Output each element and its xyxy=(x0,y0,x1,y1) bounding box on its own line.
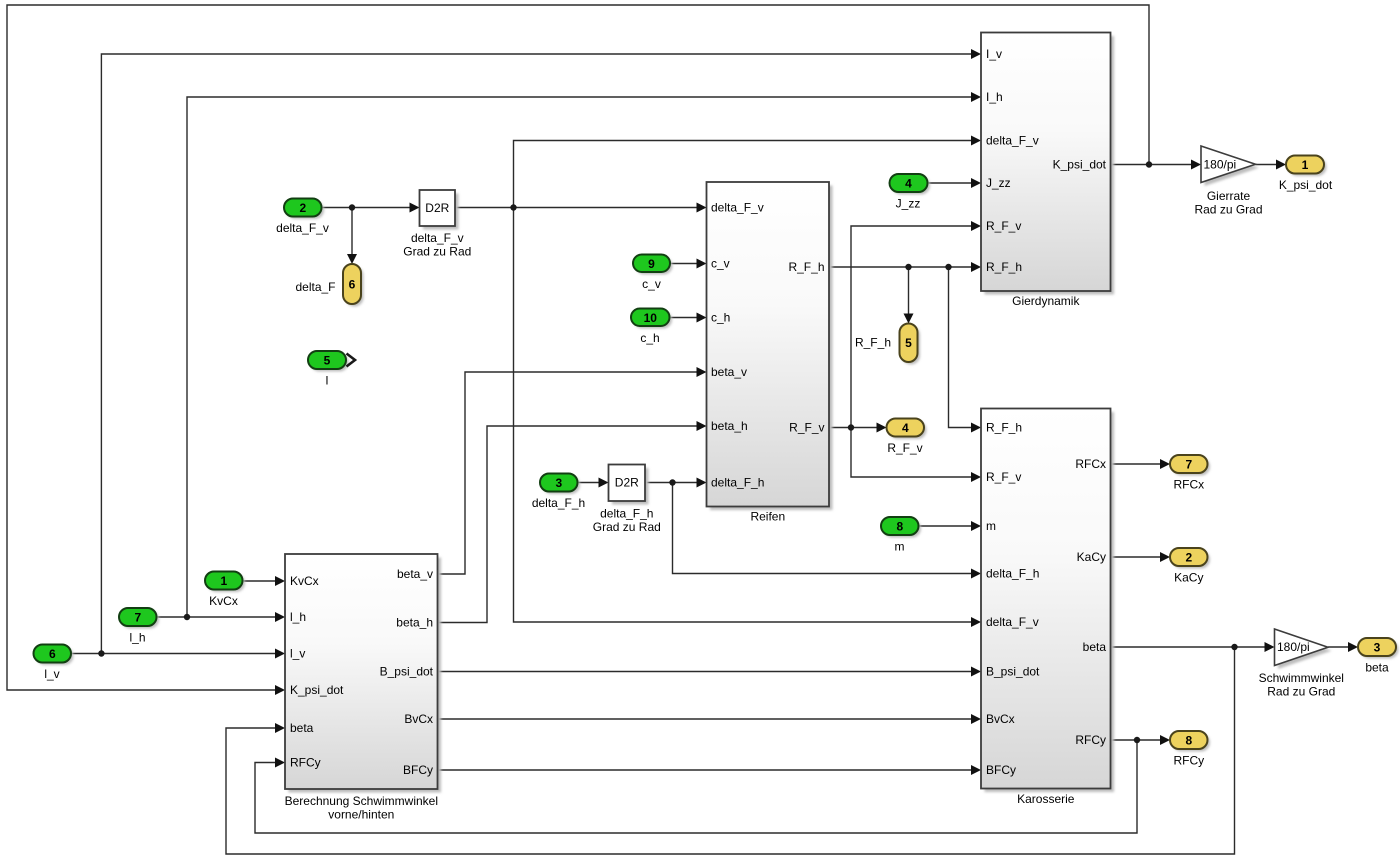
gain Schwimmwinkel Rad zu Grad 180/pi xyxy=(1259,629,1344,699)
wire D2R1 output to Reifen delta_F_v xyxy=(455,207,698,209)
junction beta xyxy=(1231,644,1237,650)
svg-text:3: 3 xyxy=(1374,641,1381,655)
wire R_F_h branch down to Karosserie xyxy=(949,267,973,428)
svg-text:7: 7 xyxy=(1185,458,1192,472)
svg-text:RFCx: RFCx xyxy=(1173,478,1204,492)
wire net beta_h xyxy=(438,426,698,623)
wire net delta_F_v from inport 2 to D2R xyxy=(322,207,412,209)
svg-text:8: 8 xyxy=(1185,734,1192,748)
wire net BFCy xyxy=(438,769,973,771)
wire delta_F_v rad branch down to Karosserie xyxy=(514,208,973,623)
arrowheads into Reifen xyxy=(697,203,707,488)
wire net l_v branch up to Gierdynamik I_v xyxy=(101,54,972,654)
svg-text:Karosserie: Karosserie xyxy=(1017,792,1075,806)
svg-text:J_zz: J_zz xyxy=(896,197,921,211)
wire net KvCx xyxy=(243,580,277,582)
svg-text:RFCy: RFCy xyxy=(1173,754,1204,768)
svg-text:5: 5 xyxy=(324,354,331,368)
svg-text:vorne/hinten: vorne/hinten xyxy=(328,808,394,822)
svg-text:1: 1 xyxy=(1302,158,1309,172)
svg-text:BvCx: BvCx xyxy=(986,712,1015,726)
svg-text:beta_v: beta_v xyxy=(397,567,433,581)
junction delta_F_v rad xyxy=(510,204,516,210)
svg-text:6: 6 xyxy=(349,278,356,292)
wire net delta_F_v branch down to outport 6 xyxy=(351,208,353,256)
inport 6 l_v xyxy=(34,645,74,682)
svg-text:delta_F_h: delta_F_h xyxy=(532,496,585,510)
outport 8 RFCy xyxy=(1170,731,1210,768)
arrowheads into gains and outports xyxy=(877,160,1359,746)
svg-text:J_zz: J_zz xyxy=(986,176,1011,190)
wire net R_F_v from Reifen to outport 4 xyxy=(829,427,878,429)
svg-text:I_h: I_h xyxy=(986,90,1003,104)
wire net J_zz xyxy=(928,182,973,184)
svg-text:beta_h: beta_h xyxy=(396,616,433,630)
svg-text:K_psi_dot: K_psi_dot xyxy=(1053,158,1107,172)
svg-text:c_v: c_v xyxy=(711,257,730,271)
svg-text:BvCx: BvCx xyxy=(404,712,433,726)
svg-text:R_F_v: R_F_v xyxy=(887,441,922,455)
svg-text:K_psi_dot: K_psi_dot xyxy=(290,683,344,697)
svg-text:l_h: l_h xyxy=(129,631,145,645)
svg-text:Gierdynamik: Gierdynamik xyxy=(1012,294,1080,308)
D2R block delta_F_h Grad zu Rad xyxy=(593,465,661,535)
svg-text:5: 5 xyxy=(905,336,912,350)
svg-text:delta_F_h: delta_F_h xyxy=(986,567,1039,581)
wire net beta_v xyxy=(438,372,698,574)
svg-text:BFCy: BFCy xyxy=(986,763,1016,777)
junction l_v xyxy=(98,650,104,656)
subsystem Reifen xyxy=(707,182,833,524)
wire net beta from Karosserie to gain2 xyxy=(1111,646,1267,648)
svg-text:Rad zu Grad: Rad zu Grad xyxy=(1194,203,1262,217)
junction R_F_h b xyxy=(945,264,951,270)
svg-text:R_F_v: R_F_v xyxy=(986,470,1021,484)
svg-text:m: m xyxy=(986,519,996,533)
svg-text:R_F_v: R_F_v xyxy=(986,219,1021,233)
svg-text:Grad zu Rad: Grad zu Rad xyxy=(593,520,661,534)
junction RFCy xyxy=(1134,737,1140,743)
svg-text:delta_F_v: delta_F_v xyxy=(276,221,329,235)
wire net KaCy xyxy=(1111,556,1162,558)
svg-text:Schwimmwinkel: Schwimmwinkel xyxy=(1259,671,1344,685)
svg-text:KvCx: KvCx xyxy=(209,594,238,608)
outport 5 R_F_h xyxy=(855,324,920,365)
svg-text:beta: beta xyxy=(290,721,314,735)
svg-text:R_F_h: R_F_h xyxy=(986,260,1022,274)
svg-text:c_v: c_v xyxy=(642,277,661,291)
outport 7 RFCx xyxy=(1170,455,1210,492)
wire net l_v to Berechnung input xyxy=(71,653,276,655)
arrowheads into D2R blocks xyxy=(410,203,609,488)
inport 8 m xyxy=(881,517,921,554)
subsystem Gierdynamik xyxy=(981,33,1114,309)
svg-text:4: 4 xyxy=(902,421,909,435)
svg-text:Rad zu Grad: Rad zu Grad xyxy=(1267,685,1335,699)
svg-text:delta_F: delta_F xyxy=(295,280,335,294)
wire net RFCx xyxy=(1111,463,1162,465)
svg-text:beta: beta xyxy=(1365,661,1389,675)
wire net RFCy to outport 8 xyxy=(1111,739,1162,741)
inport 7 l_h xyxy=(119,608,159,645)
wire net c_v xyxy=(670,263,698,265)
svg-text:delta_F_h: delta_F_h xyxy=(600,507,653,521)
wire gain1 output to outport 1 xyxy=(1256,164,1279,166)
svg-text:D2R: D2R xyxy=(425,201,449,215)
subsystem Karosserie xyxy=(981,409,1114,807)
wire net m xyxy=(919,525,973,527)
arrowheads into Berechnung xyxy=(275,576,285,768)
svg-text:KaCy: KaCy xyxy=(1174,571,1203,585)
gain Gierrate Rad zu Grad 180/pi xyxy=(1194,146,1262,217)
wire net K_psi_dot from Gierdynamik to gain xyxy=(1111,164,1194,166)
svg-text:8: 8 xyxy=(896,520,903,534)
outport 2 KaCy xyxy=(1170,548,1210,585)
arrowhead down into outport 5 R_F_h xyxy=(904,314,914,324)
wire RFCy loop back to Berechnung xyxy=(255,740,1137,833)
svg-text:6: 6 xyxy=(49,647,56,661)
svg-text:delta_F_v: delta_F_v xyxy=(411,231,464,245)
svg-text:delta_F_h: delta_F_h xyxy=(711,476,764,490)
svg-text:beta_v: beta_v xyxy=(711,365,747,379)
svg-text:B_psi_dot: B_psi_dot xyxy=(380,665,434,679)
svg-text:Grad zu Rad: Grad zu Rad xyxy=(403,245,471,259)
wire net B_psi_dot xyxy=(438,671,973,673)
svg-text:beta_h: beta_h xyxy=(711,419,748,433)
svg-text:2: 2 xyxy=(1185,551,1192,565)
junction R_F_v xyxy=(848,424,854,430)
wire net l_h branch up to Gierdynamik I_h xyxy=(187,97,972,617)
svg-text:c_h: c_h xyxy=(640,331,659,345)
wire delta_F_h rad branch down to Karosserie xyxy=(673,483,973,574)
wire net c_h xyxy=(670,317,698,319)
svg-text:delta_F_v: delta_F_v xyxy=(986,134,1039,148)
svg-text:2: 2 xyxy=(299,201,306,215)
svg-text:I_v: I_v xyxy=(986,47,1002,61)
wire R_F_v branch down to Karosserie xyxy=(851,428,972,478)
inport 3 delta_F_h xyxy=(532,474,585,511)
svg-text:R_F_h: R_F_h xyxy=(855,336,891,350)
svg-text:9: 9 xyxy=(648,257,655,271)
svg-text:KvCx: KvCx xyxy=(290,574,319,588)
svg-text:10: 10 xyxy=(644,311,658,325)
svg-text:l_v: l_v xyxy=(290,647,305,661)
svg-text:RFCy: RFCy xyxy=(1075,733,1106,747)
outport 6 delta_F xyxy=(295,264,363,307)
wire R_F_v branch up to Gierdynamik xyxy=(851,226,972,428)
svg-text:4: 4 xyxy=(905,177,912,191)
subsystem Berechnung Schwimmwinkel vorne/hinten xyxy=(285,554,441,822)
svg-text:l: l xyxy=(326,374,329,388)
svg-text:l_h: l_h xyxy=(290,610,306,624)
inport 1 KvCx xyxy=(205,572,245,609)
junction delta_F_v xyxy=(349,204,355,210)
svg-text:BFCy: BFCy xyxy=(403,763,433,777)
junction K_psi_dot xyxy=(1146,161,1152,167)
svg-text:R_F_h: R_F_h xyxy=(986,421,1022,435)
wire beta loop back to Berechnung xyxy=(226,647,1235,854)
wire net l_h to Berechnung input xyxy=(157,616,277,618)
svg-text:RFCy: RFCy xyxy=(290,756,321,770)
wire D2R2 output to Reifen delta_F_h xyxy=(645,482,698,484)
wire net BvCx xyxy=(438,718,973,720)
svg-text:beta: beta xyxy=(1083,640,1107,654)
junction delta_F_h rad xyxy=(669,479,675,485)
arrowhead down into outport 6 delta_F xyxy=(347,254,357,264)
arrowheads into Gierdynamik xyxy=(971,49,981,272)
inport 10 c_h xyxy=(631,309,672,346)
wire gain2 output to outport 3 xyxy=(1328,646,1349,648)
inport 5 l unconnected xyxy=(308,351,349,388)
svg-text:B_psi_dot: B_psi_dot xyxy=(986,665,1040,679)
svg-text:Reifen: Reifen xyxy=(750,510,785,524)
svg-text:1: 1 xyxy=(220,574,227,588)
svg-text:m: m xyxy=(895,540,905,554)
wire net delta_F_h inport to D2R2 xyxy=(578,482,600,484)
inport 9 c_v xyxy=(633,255,673,292)
wire net K_psi_dot loop back to Berechnung xyxy=(7,5,1149,690)
svg-text:180/pi: 180/pi xyxy=(1204,158,1237,172)
svg-text:l_v: l_v xyxy=(44,667,59,681)
svg-text:180/pi: 180/pi xyxy=(1277,640,1310,654)
svg-text:c_h: c_h xyxy=(711,311,730,325)
svg-text:Berechnung Schwimmwinkel: Berechnung Schwimmwinkel xyxy=(285,794,438,808)
svg-text:K_psi_dot: K_psi_dot xyxy=(1279,178,1333,192)
svg-text:delta_F_v: delta_F_v xyxy=(711,201,764,215)
svg-text:delta_F_v: delta_F_v xyxy=(986,615,1039,629)
svg-text:7: 7 xyxy=(134,611,141,625)
wire net R_F_h from Reifen to Gierdynamik xyxy=(829,266,972,268)
svg-text:R_F_h: R_F_h xyxy=(788,260,824,274)
junction l_h xyxy=(184,614,190,620)
svg-text:D2R: D2R xyxy=(615,476,639,490)
wire delta_F_v rad branch up to Gierdynamik xyxy=(514,141,973,208)
svg-text:R_F_v: R_F_v xyxy=(789,421,824,435)
arrowheads into Karosserie xyxy=(971,423,981,776)
outport 1 K_psi_dot xyxy=(1279,156,1333,193)
unconnected chevron of inport 5 xyxy=(347,354,356,367)
D2R block delta_F_v Grad zu Rad xyxy=(403,190,471,259)
svg-text:Gierrate: Gierrate xyxy=(1207,189,1251,203)
outport 3 beta xyxy=(1358,638,1399,675)
inport 2 delta_F_v xyxy=(276,199,329,236)
svg-text:RFCx: RFCx xyxy=(1075,457,1106,471)
outport 4 R_F_v xyxy=(887,419,927,456)
wire R_F_h branch down to outport 5 xyxy=(908,267,910,314)
inport 4 J_zz xyxy=(890,174,931,211)
junction R_F_h a xyxy=(905,264,911,270)
svg-text:KaCy: KaCy xyxy=(1077,550,1106,564)
svg-text:3: 3 xyxy=(555,476,562,490)
